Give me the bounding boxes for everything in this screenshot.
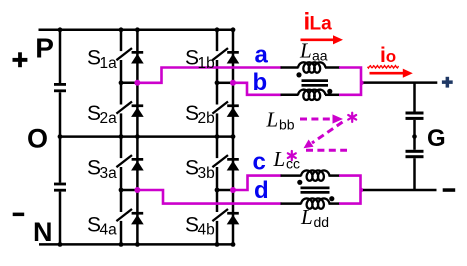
switch S2a <box>116 83 132 137</box>
junction <box>215 188 220 193</box>
label - (input negative) <box>13 213 25 217</box>
inductor Laa lead left <box>281 66 299 69</box>
inductor Ldd lead right <box>329 202 341 205</box>
label iLa (inductor current) <box>304 8 333 35</box>
label S2a <box>87 102 117 127</box>
inductor Ldd winding <box>301 198 330 208</box>
svg-text:G: G <box>427 125 446 152</box>
svg-text:2a: 2a <box>100 110 118 127</box>
node d junction dot <box>134 187 140 193</box>
node G junction dot <box>412 134 417 139</box>
label S3b <box>185 157 215 182</box>
label S4a <box>87 213 117 238</box>
svg-text:La: La <box>310 13 333 34</box>
node N junction <box>58 242 63 247</box>
svg-text:bb: bb <box>279 116 295 132</box>
svg-text:2b: 2b <box>198 110 215 127</box>
switch S3b <box>212 137 228 190</box>
coupling dashed line Lbb to star (top) <box>300 114 343 123</box>
diode D3a (antiparallel of S3a) <box>131 137 144 190</box>
junction <box>119 80 124 85</box>
junction <box>231 27 236 32</box>
label S1b <box>185 46 215 71</box>
polarity dot Laa <box>296 72 301 77</box>
wire b (magenta, leg-b midpoint to Lb winding) <box>233 83 282 95</box>
label Laa <box>299 39 328 64</box>
wire output cap leg middle <box>413 120 416 150</box>
wire leg-a node d junction bar <box>121 189 137 192</box>
svg-text:d: d <box>254 177 269 204</box>
svg-text:L: L <box>266 108 279 132</box>
inductor Lbb lead left <box>281 94 299 97</box>
wire left bus upper segment <box>59 30 62 83</box>
diode D2a (antiparallel of S2a) <box>131 83 144 137</box>
diode D4a (antiparallel of S4a) <box>131 190 144 244</box>
junction <box>215 134 220 139</box>
svg-text:4b: 4b <box>198 222 215 239</box>
junction <box>231 134 236 139</box>
junction <box>119 188 124 193</box>
svg-text:aa: aa <box>312 47 328 63</box>
node label b <box>253 69 268 96</box>
wire d (magenta, leg-a lower midpoint to Ld winding) <box>137 190 281 204</box>
svg-text:o: o <box>386 47 396 66</box>
label S3a <box>87 157 117 182</box>
wire leg-b node c junction bar <box>217 189 233 192</box>
junction <box>119 27 124 32</box>
polarity dot Lcc <box>297 180 302 185</box>
junction <box>135 27 140 32</box>
junction <box>135 134 140 139</box>
inductor Ldd lead left <box>281 202 302 205</box>
junction <box>119 134 124 139</box>
capacitor Co2 (output filter lower) <box>406 150 424 158</box>
inductor Lcc winding <box>301 170 330 180</box>
node upper output junction marker <box>360 79 365 86</box>
svg-text:O: O <box>27 123 48 153</box>
wire P rail (top dc bus rail) <box>39 29 234 32</box>
core Laa-Lbb bar1 <box>302 79 329 82</box>
label G (ground/midpoint) <box>427 125 446 152</box>
junction <box>215 80 220 85</box>
wire output positive rail <box>364 81 438 84</box>
node label a <box>255 41 269 68</box>
label S2b <box>185 102 215 127</box>
node label d <box>254 177 269 204</box>
svg-text:b: b <box>253 69 268 96</box>
svg-text:L: L <box>300 205 313 229</box>
label + (input positive) <box>13 52 28 67</box>
squiggle under io <box>368 66 399 69</box>
label Lbb <box>266 108 295 133</box>
svg-text:L: L <box>299 39 312 63</box>
inductor Laa lead right <box>325 66 340 69</box>
arrow io direction <box>370 69 413 78</box>
coupling star upper <box>348 113 356 122</box>
wire N rail (bottom dc bus rail) <box>39 243 233 246</box>
inductor Lbb lead right <box>325 94 340 97</box>
capacitor C1 (P-O dc-link) <box>54 83 66 92</box>
switch S4b <box>212 190 228 244</box>
diode D1b (antiparallel of S1b) <box>227 30 240 83</box>
svg-text:a: a <box>255 41 269 68</box>
switch S4a <box>116 190 132 244</box>
label Ldd <box>300 205 329 230</box>
inductor Lcc lead left <box>281 174 302 177</box>
label io (output current) <box>380 44 396 67</box>
junction <box>231 242 236 247</box>
label - (output negative) <box>443 188 456 192</box>
arrow iLa direction <box>301 35 344 44</box>
wire output cap leg upper <box>413 83 416 112</box>
node lower output junction marker <box>360 187 365 194</box>
node a junction dot <box>134 80 140 86</box>
wire a winding to output junction (magenta) <box>339 68 361 95</box>
node c junction dot <box>230 187 236 193</box>
svg-text:3a: 3a <box>100 165 118 182</box>
wire leg-a node a junction bar <box>121 82 137 85</box>
diode D1a (antiparallel of S1a) <box>131 30 144 83</box>
node P junction <box>58 27 63 32</box>
wire left bus middle segment <box>59 92 62 182</box>
node b junction dot <box>230 80 236 86</box>
label S1a <box>87 46 117 71</box>
node O junction <box>58 134 63 139</box>
label P <box>35 33 54 64</box>
diode D4b (antiparallel of S4b) <box>227 190 240 244</box>
switch S3a <box>116 137 132 190</box>
switch S1b <box>212 30 228 83</box>
wire left bus lower segment <box>59 192 62 245</box>
switch S1a <box>116 30 132 83</box>
wire output cap leg lower <box>413 158 416 190</box>
wire a (magenta, leg-a midpoint to La winding) <box>137 68 281 83</box>
junction <box>215 27 220 32</box>
svg-text:1b: 1b <box>198 55 215 72</box>
coupling dashed diagonal <box>304 122 343 148</box>
label O <box>27 123 48 153</box>
diode D3b (antiparallel of S3b) <box>227 137 240 190</box>
switch S2b <box>212 83 228 137</box>
svg-text:P: P <box>35 33 54 64</box>
svg-text:dd: dd <box>314 214 330 230</box>
core Lcc-Ldd bar2 <box>301 191 330 194</box>
junction <box>215 242 220 247</box>
svg-text:c: c <box>253 148 266 175</box>
wire output negative rail <box>363 189 437 192</box>
capacitor C2 (O-N dc-link) <box>54 183 66 192</box>
svg-text:1a: 1a <box>100 55 118 72</box>
junction <box>135 242 140 247</box>
wire c (magenta, leg-b lower midpoint to Lc winding) <box>233 176 282 190</box>
polarity dot Lbb <box>327 89 332 94</box>
svg-text:3b: 3b <box>198 165 215 182</box>
diode D2b (antiparallel of S2b) <box>227 83 240 137</box>
node label c <box>253 148 266 175</box>
wire O rail (midpoint rail) <box>60 135 233 138</box>
core Laa-Lbb bar2 <box>302 84 329 87</box>
wire c winding to output junction (magenta) <box>339 176 361 204</box>
junction <box>119 242 124 247</box>
core Lcc-Ldd bar1 <box>301 187 330 190</box>
coupling star lower (Lcc) <box>288 151 296 160</box>
svg-text:L: L <box>273 147 286 171</box>
svg-text:4a: 4a <box>100 222 118 239</box>
polarity dot Ldd <box>329 196 334 201</box>
label S4b <box>185 213 215 238</box>
svg-text:N: N <box>33 217 53 247</box>
inductor Laa winding <box>298 62 326 72</box>
label Lcc <box>273 147 301 172</box>
label + (output positive) <box>442 77 453 88</box>
inductor Lcc lead right <box>329 174 341 177</box>
coupling dashed line to Lcc (bottom) <box>306 149 347 152</box>
capacitor Co1 (output filter upper) <box>406 112 424 120</box>
inductor Lbb winding <box>298 90 326 100</box>
label N <box>33 217 53 247</box>
wire leg-b node b junction bar <box>217 82 233 85</box>
